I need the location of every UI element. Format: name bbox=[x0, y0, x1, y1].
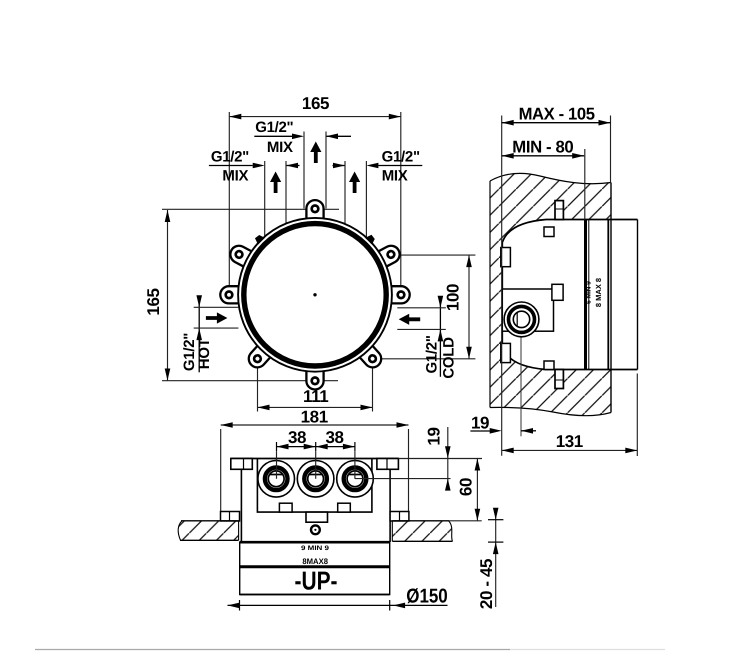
svg-text:165: 165 bbox=[302, 94, 329, 113]
svg-text:38: 38 bbox=[325, 428, 343, 447]
plate box MIN/MAX bbox=[240, 542, 390, 594]
svg-text:19: 19 bbox=[424, 427, 443, 445]
wall right (bottom view) bbox=[392, 521, 452, 542]
center dot bbox=[313, 293, 316, 296]
nub 135 bbox=[253, 233, 265, 245]
wall front surface bbox=[610, 183, 612, 413]
svg-text:G1/2": G1/2" bbox=[424, 335, 441, 373]
port right (bottom) bbox=[337, 461, 374, 498]
casing sides bbox=[240, 459, 242, 543]
boss on bar bbox=[552, 284, 563, 300]
wall back surface bbox=[489, 181, 491, 408]
cartridge bar bbox=[502, 289, 553, 331]
svg-text:131: 131 bbox=[556, 432, 583, 451]
svg-text:MIX: MIX bbox=[267, 139, 293, 156]
side port axis bbox=[520, 319, 522, 436]
dim G1/2 HOT port bbox=[194, 295, 239, 372]
dim diameter 150 bbox=[228, 600, 448, 611]
plaster tab left bbox=[221, 512, 240, 522]
main body circle bbox=[238, 218, 392, 372]
port left (bottom) bbox=[258, 461, 295, 498]
flow arrow mix center bbox=[310, 142, 321, 164]
flange top line bbox=[231, 458, 399, 460]
flow arrow mix right bbox=[349, 172, 360, 194]
svg-text:9 MIN 9: 9 MIN 9 bbox=[301, 545, 329, 552]
nub rect top (side) bbox=[544, 227, 554, 237]
svg-text:60: 60 bbox=[456, 478, 475, 496]
dim 165 vertical left bbox=[162, 209, 339, 380]
wall break edge bottom bbox=[490, 407, 611, 415]
dim 165 horizontal top bbox=[229, 112, 400, 286]
svg-text:G1/2": G1/2" bbox=[382, 148, 420, 165]
dim G1/2 right port bbox=[333, 161, 423, 238]
flange lug upper-right bbox=[371, 243, 403, 271]
wall section hatch bbox=[490, 173, 611, 415]
lug bottom (side) bbox=[555, 370, 563, 389]
flange lug bottom bbox=[306, 363, 323, 390]
dim 111 bbox=[258, 362, 373, 412]
svg-text:8 MAX 8: 8 MAX 8 bbox=[594, 278, 603, 307]
flange lug lower-left bbox=[245, 339, 276, 371]
lug top (side) bbox=[555, 201, 563, 220]
svg-text:MIX: MIX bbox=[382, 167, 408, 184]
dim 100 vertical right bbox=[373, 255, 476, 359]
flange lug top bbox=[306, 200, 323, 227]
dim G1/2 left port bbox=[209, 161, 300, 238]
svg-text:G1/2": G1/2" bbox=[255, 119, 293, 136]
wall break edge top bbox=[490, 173, 611, 183]
rear lug upper (side) bbox=[501, 248, 511, 267]
svg-text:G1/2": G1/2" bbox=[211, 148, 249, 165]
flange lug upper-left bbox=[227, 243, 259, 271]
svg-text:100: 100 bbox=[444, 284, 463, 311]
flange tab left bbox=[231, 459, 253, 470]
BOTTOM VIEW bbox=[178, 427, 503, 611]
svg-text:-UP-: -UP- bbox=[295, 566, 338, 596]
front section heavy edge bbox=[584, 220, 587, 370]
dim MIN-80 bbox=[502, 149, 585, 220]
dim G1/2 center port bbox=[254, 132, 351, 209]
center stem bbox=[306, 512, 328, 522]
flow arrow mix left bbox=[270, 172, 281, 194]
svg-text:181: 181 bbox=[301, 408, 328, 427]
sleeve divider bbox=[607, 220, 609, 370]
nub rect bottom (side) bbox=[544, 361, 554, 370]
SIDE VIEW bbox=[470, 105, 637, 456]
svg-text:Ø150: Ø150 bbox=[406, 586, 448, 608]
dim 181 bbox=[221, 422, 409, 517]
FRONT VIEW bbox=[144, 94, 476, 518]
sleeve outer edge bbox=[637, 220, 639, 370]
side port circles bbox=[504, 302, 539, 337]
svg-text:MIN - 80: MIN - 80 bbox=[512, 138, 573, 157]
flange lug left bbox=[220, 286, 247, 303]
port center (bottom) bbox=[297, 461, 334, 498]
screw boss right bbox=[338, 503, 351, 512]
svg-text:MIX: MIX bbox=[222, 167, 248, 184]
svg-text:6 MIN 9: 6 MIN 9 bbox=[585, 281, 592, 304]
screw boss left bbox=[279, 503, 292, 512]
dim 20-45 bbox=[488, 508, 503, 607]
svg-text:MAX - 105: MAX - 105 bbox=[519, 105, 595, 124]
dim 60 bbox=[449, 459, 482, 521]
dim 19 (side) bbox=[470, 428, 536, 434]
inner block bbox=[257, 459, 372, 513]
dim 38 38 bbox=[277, 442, 355, 479]
dim 131 bbox=[502, 374, 638, 457]
dim 19 (bottom) bbox=[355, 427, 482, 491]
svg-text:HOT: HOT bbox=[196, 338, 213, 369]
svg-text:20 - 45: 20 - 45 bbox=[477, 559, 496, 609]
flow arrow hot bbox=[206, 312, 228, 323]
flow arrow cold bbox=[399, 314, 421, 325]
svg-text:19: 19 bbox=[471, 414, 489, 433]
svg-text:38: 38 bbox=[288, 428, 306, 447]
nub 45 bbox=[365, 233, 377, 245]
plaster tab right bbox=[390, 512, 409, 522]
wall left (bottom view) bbox=[178, 521, 238, 541]
stem screw bbox=[311, 525, 320, 534]
valve body outline bbox=[502, 220, 546, 370]
flange lug right bbox=[383, 286, 410, 303]
footer line bbox=[35, 649, 510, 651]
dim MAX-105 bbox=[502, 116, 611, 456]
svg-text:COLD: COLD bbox=[441, 337, 458, 379]
flange tab right bbox=[377, 459, 399, 470]
ring bbox=[244, 224, 386, 366]
flange lug lower-right bbox=[354, 339, 385, 371]
rear lug lower (side) bbox=[501, 343, 511, 362]
svg-text:165: 165 bbox=[144, 288, 163, 315]
dim G1/2 COLD port bbox=[397, 296, 446, 377]
